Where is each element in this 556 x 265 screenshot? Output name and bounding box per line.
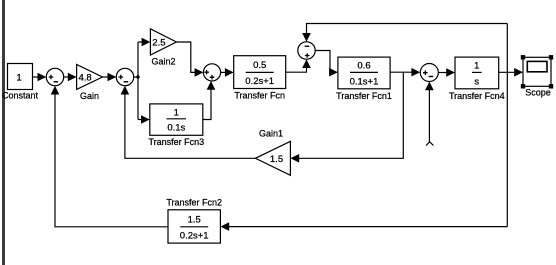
wire Sum3 to Transfer Fcn <box>221 68 234 77</box>
wire dangling into Sum5 bottom <box>425 82 434 146</box>
wire Transfer Fcn3 to Sum3 <box>203 81 216 120</box>
window left border <box>2 0 5 265</box>
sum junction S5 <box>420 64 438 82</box>
wire Gain2 to Sum3 <box>176 42 203 77</box>
wire top feedback into Sum4 <box>302 24 507 42</box>
wire Sum5 to Transfer Fcn4 <box>438 68 455 77</box>
wire Gain to Sum2 <box>103 73 117 82</box>
svg-text:0.6: 0.6 <box>357 61 370 72</box>
svg-text:0.1s: 0.1s <box>167 123 185 134</box>
gain Gain <box>77 65 103 102</box>
svg-text:Constant: Constant <box>2 91 39 101</box>
svg-text:Scope: Scope <box>525 88 551 98</box>
wire branch vertical <box>137 42 139 120</box>
svg-text:1: 1 <box>16 72 21 83</box>
wire Transfer Fcn2 to Sum1 <box>51 86 168 227</box>
sum junction S4 <box>298 42 315 59</box>
svg-text:0.2s+1: 0.2s+1 <box>180 231 209 242</box>
scope Scope <box>521 55 553 97</box>
svg-text:Gain2: Gain2 <box>151 57 175 67</box>
junction dot <box>136 75 139 78</box>
svg-text:Gain1: Gain1 <box>259 129 283 139</box>
sum junction S3 <box>203 64 220 81</box>
transfer function Transfer Fcn4 <box>449 57 505 101</box>
wire Sum1 to Gain <box>64 73 77 82</box>
svg-text:0.5: 0.5 <box>253 60 266 71</box>
svg-text:Gain: Gain <box>80 91 99 101</box>
gain Gain2 <box>150 29 176 67</box>
svg-text:1.5: 1.5 <box>188 215 201 226</box>
svg-text:1: 1 <box>474 61 479 72</box>
svg-text:1: 1 <box>174 108 179 119</box>
wire Sum4 to Transfer Fcn1 <box>315 51 338 77</box>
svg-text:0.1s+1: 0.1s+1 <box>350 77 379 88</box>
wire Transfer Fcn to Sum4 <box>286 59 311 72</box>
svg-text:1.5: 1.5 <box>270 154 283 165</box>
sum junction S2 <box>116 68 133 85</box>
svg-text:2.5: 2.5 <box>152 38 165 49</box>
wire tap down to Gain1 <box>290 72 403 162</box>
svg-text:s: s <box>474 77 479 88</box>
transfer function Transfer Fcn1 <box>336 57 392 101</box>
sum junction S1 <box>46 68 63 85</box>
wire Transfer Fcn1 to Sum5 <box>390 68 420 77</box>
wire Gain1 to Sum2 <box>121 86 256 159</box>
wire Constant to Sum1 <box>33 73 47 82</box>
wire branch to Transfer Fcn3 <box>138 115 150 124</box>
gain Gain1 <box>255 129 290 176</box>
wire Sum2 output to branch point <box>134 76 138 78</box>
svg-text:Transfer Fcn2: Transfer Fcn2 <box>166 198 222 208</box>
svg-text:Transfer Fcn4: Transfer Fcn4 <box>449 91 505 101</box>
wire feedback vertical right <box>506 24 508 227</box>
svg-text:Transfer Fcn: Transfer Fcn <box>234 91 285 101</box>
wire bottom feedback to Transfer Fcn2 <box>220 222 507 231</box>
transfer function Transfer Fcn <box>234 56 286 101</box>
svg-text:0.2s+1: 0.2s+1 <box>245 76 274 87</box>
svg-text:Transfer Fcn1: Transfer Fcn1 <box>336 91 392 101</box>
svg-text:Transfer Fcn3: Transfer Fcn3 <box>148 137 204 147</box>
wire Transfer Fcn4 to Scope <box>499 68 523 77</box>
svg-text:4.8: 4.8 <box>79 73 92 84</box>
wire branch to Gain2 <box>138 38 150 47</box>
constant block Constant <box>2 64 39 101</box>
transfer function Transfer Fcn3 <box>148 104 204 147</box>
transfer function Transfer Fcn2 <box>166 198 222 244</box>
